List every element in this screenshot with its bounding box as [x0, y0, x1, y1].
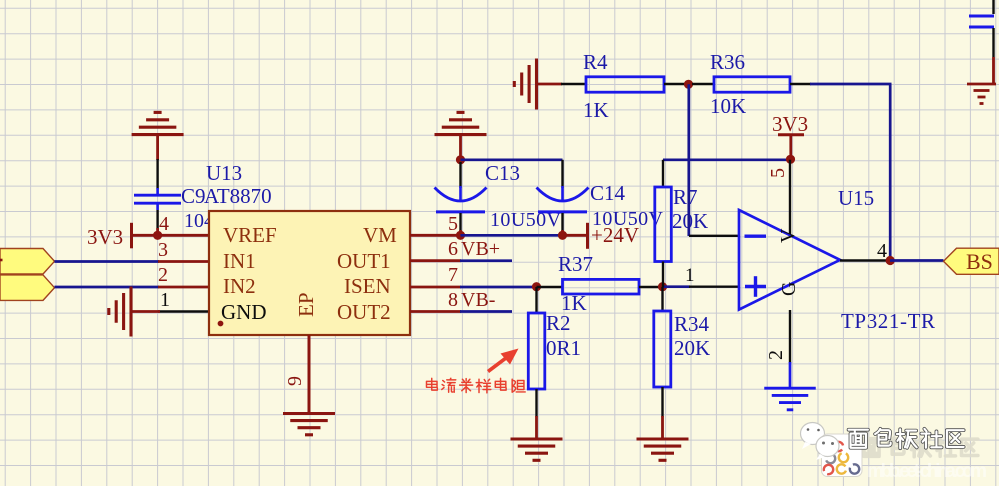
pin 5 VM of U13	[410, 234, 461, 237]
pin right of R4	[664, 83, 685, 85]
op-amp minus sign	[745, 234, 767, 237]
node VM/C13 junction	[456, 231, 465, 240]
power +24V bar	[586, 223, 589, 249]
svg-text:VREF: VREF	[223, 223, 277, 247]
capacitor C14 curved plate	[537, 188, 589, 202]
capacitor C13 pin bottom	[459, 213, 461, 232]
capacitor C13 pin top	[459, 162, 461, 188]
wire IN2 to U13	[55, 286, 160, 289]
node C13 top junction	[456, 155, 465, 164]
wire C13 bottom	[459, 230, 462, 236]
ground (above C13)	[435, 133, 487, 136]
pin right of R36	[790, 83, 811, 85]
svg-text:OUT2: OUT2	[337, 300, 391, 324]
pin right of R37	[639, 286, 664, 288]
svg-text:R37: R37	[558, 252, 593, 276]
wire R2 to ground	[535, 416, 538, 439]
pin 6 OUT1 of U13	[410, 259, 461, 262]
wire ground to C13 node	[459, 136, 462, 158]
pin 7 ISEN of U13	[410, 286, 461, 289]
svg-text:EP: EP	[294, 292, 318, 317]
svg-text:ISEN: ISEN	[344, 274, 391, 298]
svg-text:VM: VM	[363, 223, 397, 247]
svg-text:VB-: VB-	[461, 289, 495, 311]
capacitor C14 pin top	[561, 160, 563, 188]
svg-text:9: 9	[284, 376, 306, 386]
pin 1 GND of U13	[158, 310, 209, 312]
wire 3V3 to VREF pin	[132, 234, 163, 237]
svg-text:4: 4	[877, 240, 887, 262]
pin top of R34	[661, 287, 663, 311]
resistor R34 body	[654, 311, 671, 387]
pin bottom of R7	[662, 262, 664, 288]
node VM/C14 junction	[558, 231, 567, 240]
wire C14 to +24V power	[564, 234, 586, 237]
capacitor (top-right, partial) plate 1	[969, 15, 994, 18]
capacitor C9 pin top	[156, 159, 158, 189]
ground (below U15, blue)	[764, 387, 816, 390]
capacitor (top-right, partial) plate 2	[969, 26, 994, 29]
svg-text:8: 8	[448, 289, 458, 311]
node R4/R36 junction	[684, 80, 693, 89]
node output junction	[886, 256, 895, 265]
power 3V3 right bar	[778, 133, 804, 136]
wire VB+ net	[460, 259, 512, 262]
port IN1 (left edge)	[0, 249, 55, 275]
svg-text:C14: C14	[590, 181, 626, 205]
resistor R4 body	[586, 77, 664, 92]
wire VM net C13 to C14	[461, 234, 563, 237]
wire feedback vertical	[889, 84, 892, 261]
wire ground to C9	[156, 136, 159, 160]
svg-text:mbb.eet-china.com: mbb.eet-china.com	[867, 461, 987, 482]
pin top of R7	[662, 160, 664, 188]
svg-text:1: 1	[685, 265, 695, 286]
svg-text:2: 2	[765, 350, 787, 360]
svg-text:5: 5	[448, 213, 458, 235]
port BS (right edge)	[944, 248, 999, 274]
pin left of R4	[561, 83, 587, 85]
wire C14 bottom	[561, 230, 564, 236]
svg-text:R4: R4	[583, 50, 608, 74]
wire op-amp to blue ground	[789, 362, 792, 388]
ground (below R2)	[511, 437, 563, 440]
svg-text:R7: R7	[673, 185, 698, 209]
svg-text:4: 4	[159, 213, 169, 235]
ground (below U13 EP)	[283, 412, 335, 415]
capacitor C9	[156, 188, 159, 195]
wire R34 to ground	[661, 416, 664, 439]
svg-text:10K: 10K	[710, 94, 746, 118]
svg-text:GND: GND	[221, 300, 267, 324]
pin 5 of U15 (power)	[789, 160, 791, 236]
resistor R7 body	[655, 187, 672, 262]
ground (top-right corner)	[967, 83, 996, 86]
svg-text:1K: 1K	[583, 98, 609, 122]
pin 4 VREF of U13	[158, 234, 209, 237]
node 3V3/pin5 junction	[786, 155, 795, 164]
pin 9 EP of U13	[308, 335, 311, 413]
svg-text:2: 2	[158, 264, 168, 286]
capacitor C9 pin bottom	[156, 210, 158, 230]
svg-text:+24V: +24V	[591, 223, 639, 247]
svg-text:AT8870: AT8870	[204, 184, 272, 208]
op-amp plus sign	[745, 285, 766, 288]
pin + input of U15	[689, 286, 740, 288]
svg-text:U13: U13	[206, 161, 242, 185]
svg-text:VB+: VB+	[461, 238, 500, 260]
svg-text:OUT1: OUT1	[337, 249, 391, 273]
annotation text 'current sampling resistor' (red CJK)	[426, 378, 437, 390]
svg-text:R2: R2	[546, 311, 571, 335]
wire ground to R4	[537, 83, 562, 86]
wire R36 to output node	[810, 83, 892, 86]
annotation arrow (red)	[488, 357, 508, 372]
svg-text:R36: R36	[710, 50, 745, 74]
pin left of R37	[537, 286, 563, 288]
watermark ghost text copy	[862, 439, 881, 457]
pin of top-right capacitor	[992, 28, 994, 57]
wire IN1 to U13	[55, 260, 160, 263]
wire to top-right ground	[992, 57, 995, 83]
wire VB- net	[460, 310, 512, 313]
ground (below R34)	[637, 437, 689, 440]
svg-text:6: 6	[448, 238, 458, 260]
pin - input of U15	[689, 235, 740, 237]
svg-text:C9: C9	[181, 184, 206, 208]
wire C13 to C14 top	[461, 158, 563, 161]
svg-text:IN1: IN1	[223, 249, 256, 273]
pin left of R36	[692, 83, 715, 85]
wire output to port BS	[890, 259, 944, 262]
ground (left of R4, rotated)	[535, 59, 538, 110]
wire 3V3 rail to R7	[663, 158, 791, 161]
svg-text:R34: R34	[674, 312, 710, 336]
svg-text:3V3: 3V3	[772, 112, 808, 136]
node 3V3/C9 junction	[153, 231, 162, 240]
resistor R2 body	[528, 313, 545, 389]
capacitor C13 curved plate	[435, 188, 487, 202]
pin bottom of R34	[661, 387, 663, 417]
watermark main text (white CJK with outline)	[849, 430, 868, 448]
svg-text:3: 3	[158, 239, 168, 261]
wire top right vertical	[992, 0, 994, 14]
watermark logo big chat bubble	[801, 423, 825, 450]
watermark logo tile with colored rings	[822, 434, 863, 477]
watermark logo small chat bubble	[816, 436, 839, 461]
svg-text:BS: BS	[966, 249, 993, 274]
wire C9 to 3V3 net	[156, 228, 159, 236]
svg-text:3V3: 3V3	[87, 225, 123, 249]
svg-text:TP321-TR: TP321-TR	[841, 309, 935, 333]
svg-text:5: 5	[767, 168, 789, 178]
svg-text:U15: U15	[838, 186, 874, 210]
pin 2 of U15 (ground)	[789, 310, 791, 363]
resistor R37 body	[563, 279, 640, 294]
capacitor C13 straight plate	[436, 210, 485, 213]
port IN2 (left edge)	[0, 275, 55, 301]
op-amp U15 triangle	[739, 210, 840, 310]
pin 2 IN2 of U13	[158, 286, 209, 289]
node R37/R7/R34 junction	[658, 282, 667, 291]
pin 1 marker dot inside U13	[218, 321, 224, 327]
capacitor C14 straight plate	[538, 210, 587, 213]
svg-text:0R1: 0R1	[546, 336, 581, 360]
svg-text:7: 7	[448, 264, 458, 286]
wire node 1 to op-amp	[663, 285, 691, 288]
ground (left of U13, rotated)	[129, 287, 132, 337]
resistor R36 body	[714, 77, 790, 92]
wire node down to inverting input	[687, 84, 690, 236]
pin bottom of R2	[535, 389, 537, 417]
ground (above C9)	[132, 133, 184, 136]
pin top of R2	[535, 287, 537, 313]
svg-text:G: G	[778, 282, 800, 296]
wire ISEN to R2/R37	[460, 286, 537, 289]
svg-text:IN2: IN2	[223, 274, 256, 298]
node ISEN junction	[532, 282, 541, 291]
svg-text:V: V	[777, 228, 799, 243]
pin 4 output of U15	[840, 259, 891, 261]
IC U13 AT8870 body	[209, 211, 410, 335]
capacitor C14 pin bottom	[561, 213, 563, 232]
pin 8 OUT2 of U13	[410, 310, 461, 313]
port text fragment	[0, 259, 3, 262]
svg-text:1: 1	[160, 289, 170, 311]
power 3V3 left bar	[130, 223, 133, 249]
wire GND pin to ground	[132, 310, 160, 313]
svg-text:C13: C13	[485, 161, 520, 185]
pin 3 IN1 of U13	[158, 260, 209, 263]
svg-text:20K: 20K	[674, 336, 710, 360]
